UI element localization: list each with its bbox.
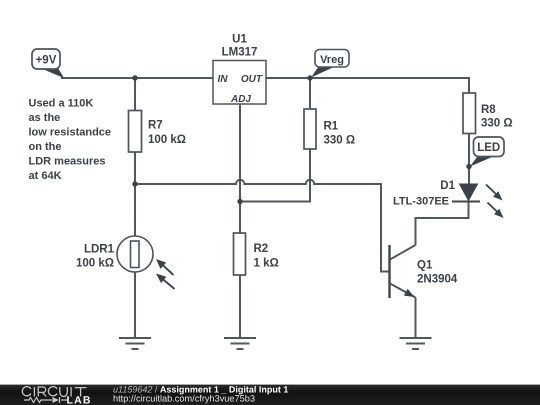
LDR1 body circle bbox=[117, 236, 153, 272]
wire Q1 emitter to ground bbox=[415, 298, 417, 339]
Q1 emitter arrowhead bbox=[404, 289, 415, 297]
wire U1 OUT to R8 top bbox=[266, 78, 469, 93]
wire R2 bottom to ground bbox=[239, 275, 241, 338]
wire +9V to U1 IN bbox=[61, 77, 213, 79]
voltage regulator U1 LM317 bbox=[213, 34, 266, 106]
wire R7 bottom to LDR1 top bbox=[134, 152, 136, 236]
net flag Vreg bbox=[311, 50, 349, 78]
Q1 emitter stroke bbox=[390, 284, 416, 298]
svg-text:OUT: OUT bbox=[241, 74, 263, 85]
D1 emitted light arrow shafts bbox=[486, 185, 500, 215]
svg-text:U1: U1 bbox=[232, 34, 247, 46]
resistor R2 bbox=[234, 233, 279, 275]
junction ADJ/R1/R2 node bbox=[237, 199, 242, 204]
LDR1 light arrowhead 2 bbox=[156, 274, 166, 284]
D1 light arrowhead 1 bbox=[493, 191, 503, 200]
svg-text:2N3904: 2N3904 bbox=[417, 274, 458, 286]
annotation note text bbox=[29, 98, 112, 183]
wire R1 bottom to ADJ/R2 node bbox=[240, 149, 310, 202]
Vreg flag box bbox=[315, 50, 349, 68]
svg-text:at 64K: at 64K bbox=[29, 170, 62, 182]
Vreg flag tail bbox=[311, 66, 336, 78]
svg-text:R1: R1 bbox=[324, 121, 339, 133]
junction R7/LDR/Q1-base node bbox=[132, 181, 137, 186]
svg-text:LDR measures: LDR measures bbox=[29, 156, 106, 168]
svg-text:IN: IN bbox=[218, 74, 229, 85]
svg-text:1 kΩ: 1 kΩ bbox=[254, 258, 279, 270]
LED flag box bbox=[474, 137, 505, 157]
LDR1 light arrowhead 1 bbox=[156, 259, 166, 269]
svg-text:+9V: +9V bbox=[36, 55, 57, 67]
LED D1 LTL-307EE bbox=[393, 180, 504, 218]
junction LED node bbox=[466, 164, 471, 169]
svg-text:http://circuitlab.com/cfryh3vu: http://circuitlab.com/cfryh3vue75b3 bbox=[113, 394, 255, 404]
svg-text:100 kΩ: 100 kΩ bbox=[76, 258, 114, 270]
svg-text:Q1: Q1 bbox=[417, 260, 433, 272]
LDR1 incident light arrow shafts bbox=[160, 263, 175, 289]
U1 body bbox=[213, 61, 266, 105]
junction node Vreg bbox=[307, 75, 312, 80]
junction at +9V / R7 top bbox=[132, 75, 137, 80]
svg-text:LM317: LM317 bbox=[222, 47, 258, 59]
svg-text:LAB: LAB bbox=[67, 395, 92, 405]
LDR1 body resistor bar bbox=[131, 241, 140, 268]
net flag LED bbox=[470, 137, 504, 167]
svg-text:ADJ: ADJ bbox=[230, 94, 251, 105]
svg-text:D1: D1 bbox=[440, 180, 455, 192]
D1 light arrowhead 2 bbox=[494, 209, 504, 218]
Q1 base bar bbox=[388, 245, 390, 298]
svg-text:Used a 110K: Used a 110K bbox=[29, 98, 94, 110]
wire LDR1 bottom to ground bbox=[134, 272, 136, 338]
footer bar bbox=[0, 384, 540, 405]
Q1 collector stroke bbox=[390, 245, 416, 260]
svg-text:LTL-307EE: LTL-307EE bbox=[393, 196, 449, 208]
svg-text:100 kΩ: 100 kΩ bbox=[148, 134, 186, 146]
ground for Q1 bbox=[400, 338, 432, 349]
+9V flag box bbox=[32, 49, 60, 69]
wire R7 top lead bbox=[134, 78, 136, 111]
+9V flag tail bbox=[40, 68, 64, 78]
R7 body bbox=[129, 111, 142, 153]
wire R8 bottom to LED anode bbox=[468, 134, 470, 185]
LED flag tail bbox=[470, 156, 495, 167]
svg-text:Vreg: Vreg bbox=[320, 54, 344, 66]
svg-text:as the: as the bbox=[29, 112, 61, 124]
wire R1 top lead bbox=[309, 78, 311, 109]
ground for R2 bbox=[224, 338, 256, 349]
svg-text:low resistandce: low resistandce bbox=[29, 127, 112, 139]
photoresistor LDR1 bbox=[76, 236, 175, 289]
svg-text:on the: on the bbox=[29, 141, 62, 153]
svg-text:LED: LED bbox=[477, 142, 500, 154]
wire base node: R7/LDR junction to Q1 base (hops over ADJ and R1 wires) bbox=[135, 180, 389, 272]
D1 anode triangle bbox=[460, 184, 478, 201]
resistor R7 bbox=[129, 111, 187, 153]
svg-text:R2: R2 bbox=[254, 243, 269, 255]
R1 body bbox=[304, 109, 316, 149]
D1 cathode bar with label leader bbox=[452, 201, 480, 203]
net flag +9V bbox=[32, 49, 64, 78]
svg-text:330 Ω: 330 Ω bbox=[481, 118, 513, 130]
R2 body bbox=[234, 233, 246, 275]
svg-text:330 Ω: 330 Ω bbox=[324, 135, 356, 147]
resistor R8 bbox=[463, 93, 513, 134]
svg-text:R7: R7 bbox=[148, 120, 163, 132]
ground for LDR1 bbox=[119, 338, 151, 349]
svg-text:LDR1: LDR1 bbox=[84, 244, 115, 256]
transistor Q1 2N3904 bbox=[390, 245, 458, 298]
svg-text:R8: R8 bbox=[481, 104, 496, 116]
resistor R1 bbox=[304, 109, 355, 149]
R8 body bbox=[463, 93, 476, 134]
CircuitLab logo bbox=[22, 387, 91, 405]
wire U1 ADJ to R2 top bbox=[239, 104, 241, 233]
wire LED cathode to Q1 collector bbox=[416, 202, 469, 246]
